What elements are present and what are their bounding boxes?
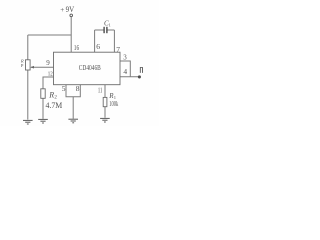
svg-text:100k: 100k xyxy=(109,100,118,108)
svg-text:9: 9 xyxy=(46,59,50,67)
svg-text:9V: 9V xyxy=(66,4,75,14)
svg-text:12: 12 xyxy=(48,72,53,78)
svg-text:16: 16 xyxy=(74,44,80,52)
svg-text:1: 1 xyxy=(109,23,111,28)
svg-text:CD4046B: CD4046B xyxy=(79,63,101,72)
svg-text:4.7M: 4.7M xyxy=(46,101,63,110)
svg-text:5: 5 xyxy=(62,84,66,93)
svg-text:4: 4 xyxy=(123,67,127,76)
svg-text:7: 7 xyxy=(116,45,120,54)
svg-text:P: P xyxy=(21,63,24,68)
svg-text:2: 2 xyxy=(54,96,57,101)
svg-text:R: R xyxy=(48,90,54,99)
svg-text:+: + xyxy=(60,6,64,14)
svg-text:8: 8 xyxy=(76,84,80,93)
svg-text:11: 11 xyxy=(98,86,103,94)
svg-text:6: 6 xyxy=(96,42,100,51)
svg-text:3: 3 xyxy=(123,53,127,61)
